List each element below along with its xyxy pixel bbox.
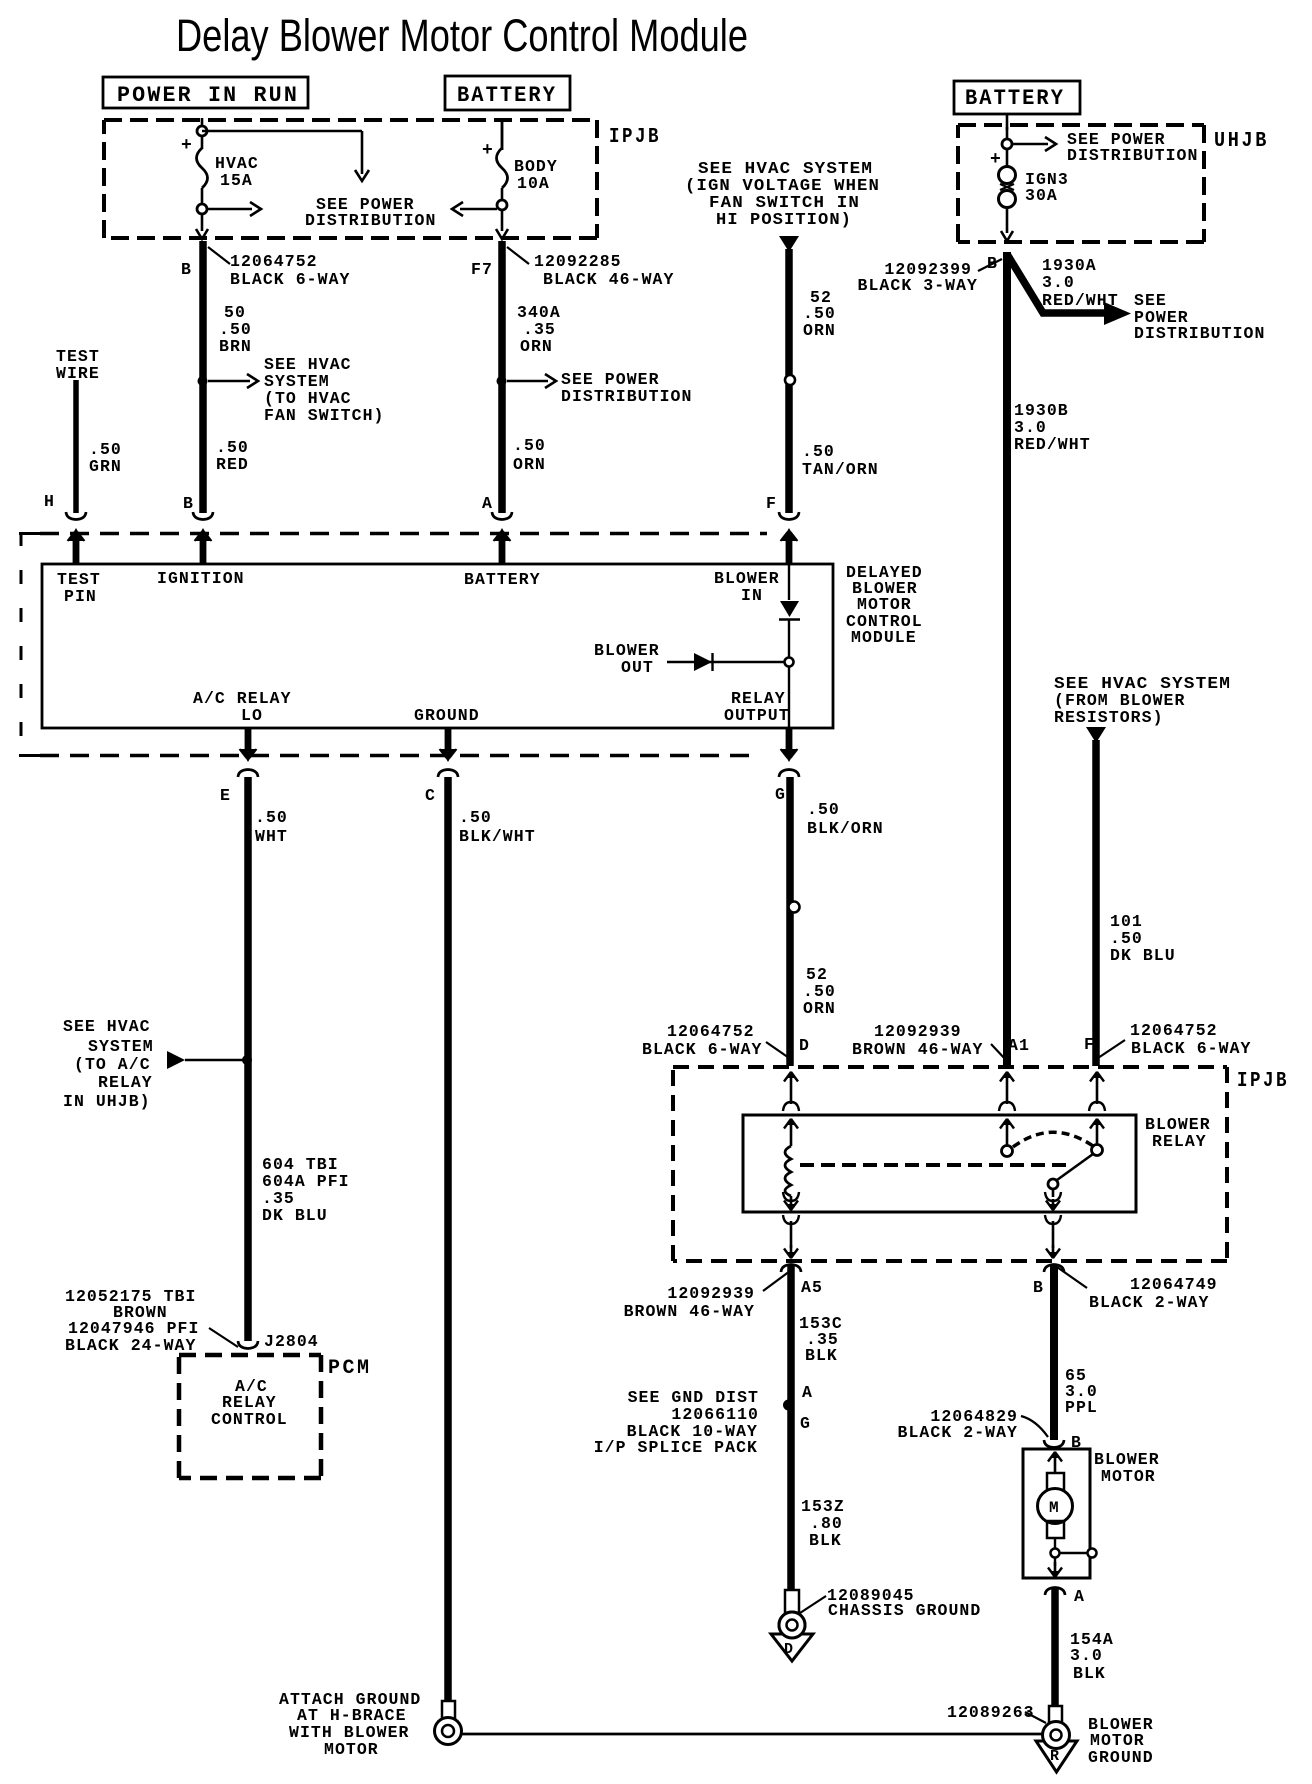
node A/C relay branch	[242, 1055, 252, 1065]
relay contact common	[1006, 1119, 1009, 1145]
module output arrow RELAY OUTPUT	[786, 728, 793, 754]
blower motor input arrow	[1054, 1452, 1057, 1473]
svg-text:ORN: ORN	[513, 455, 546, 474]
relay contact NO	[1096, 1119, 1099, 1145]
svg-text:UHJB: UHJB	[1214, 130, 1269, 153]
diode blower-in	[788, 564, 790, 600]
module input arrow IGNITION	[200, 536, 207, 564]
svg-text:.50: .50	[807, 800, 840, 819]
svg-text:PPL: PPL	[1065, 1398, 1098, 1417]
arrow from A/C relay branch	[167, 1051, 185, 1069]
svg-text:RELAY: RELAY	[98, 1073, 153, 1092]
svg-text:BATTERY: BATTERY	[457, 83, 557, 108]
wire 154A BLK to ground	[1051, 1589, 1059, 1706]
ring terminal blower motor ground	[1049, 1706, 1062, 1724]
label POWER IN RUN	[103, 77, 308, 108]
svg-text:A: A	[482, 494, 493, 513]
wire 1930A RED/WHT branch to power distribution	[1007, 254, 1106, 313]
svg-text:G: G	[775, 785, 786, 804]
svg-text:A1: A1	[1008, 1036, 1030, 1055]
wire stub BATTERY to fuse BODY	[501, 118, 504, 150]
svg-text:12064752: 12064752	[230, 252, 318, 271]
svg-text:DISTRIBUTION: DISTRIBUTION	[305, 211, 436, 230]
wire .50 BLK/WHT ground	[444, 777, 452, 1702]
svg-text:12092939: 12092939	[874, 1022, 962, 1041]
wire ground strap to blower motor ground	[460, 1733, 1042, 1736]
svg-text:GROUND: GROUND	[1088, 1748, 1154, 1767]
relay contact arc dashed	[1013, 1132, 1093, 1147]
node splice to HVAC fan switch	[198, 376, 208, 386]
circuit breaker IGN3 30A	[999, 167, 1016, 184]
svg-text:IGNITION: IGNITION	[157, 569, 245, 588]
component blower motor	[1023, 1449, 1090, 1578]
module boundary dashed outline	[20, 532, 23, 757]
connector G at module output	[779, 770, 799, 778]
svg-text:DK BLU: DK BLU	[1110, 946, 1176, 965]
wire 1930B RED/WHT to blower relay	[1003, 252, 1011, 1066]
relay armature	[1048, 1179, 1058, 1189]
connector pin arrows at IPJB bottom coil	[783, 1215, 799, 1224]
svg-text:BLACK 3-WAY: BLACK 3-WAY	[858, 276, 978, 295]
svg-text:BLACK 6-WAY: BLACK 6-WAY	[230, 270, 350, 289]
svg-text:12064752: 12064752	[667, 1022, 755, 1041]
module output arrow GROUND	[445, 728, 452, 754]
svg-text:BLACK 2-WAY: BLACK 2-WAY	[898, 1423, 1018, 1442]
svg-text:B: B	[1033, 1278, 1044, 1297]
svg-text:F: F	[1084, 1035, 1095, 1054]
svg-text:+: +	[181, 136, 192, 156]
node relay output junction	[785, 658, 794, 667]
svg-text:GROUND: GROUND	[414, 706, 480, 725]
svg-text:I/P SPLICE PACK: I/P SPLICE PACK	[594, 1438, 758, 1457]
node splice to power distribution	[497, 376, 507, 386]
svg-text:DISTRIBUTION: DISTRIBUTION	[1067, 146, 1198, 165]
svg-text:A: A	[802, 1383, 813, 1402]
connector B 12064829	[1021, 1416, 1048, 1437]
connector E at module output	[238, 770, 258, 778]
svg-text:ORN: ORN	[520, 337, 553, 356]
svg-text:RED: RED	[216, 455, 249, 474]
svg-text:BLK: BLK	[1073, 1664, 1106, 1683]
fuse BODY 10A	[501, 122, 504, 150]
svg-text:FAN SWITCH): FAN SWITCH)	[264, 406, 384, 425]
module PCM box	[179, 1353, 321, 1358]
svg-text:.50: .50	[802, 442, 835, 461]
svg-text:SYSTEM: SYSTEM	[88, 1037, 154, 1056]
svg-text:MOTOR: MOTOR	[324, 1740, 379, 1759]
svg-text:BLACK 46-WAY: BLACK 46-WAY	[543, 270, 674, 289]
junction block UHJB	[958, 123, 1204, 127]
svg-text:10A: 10A	[517, 174, 550, 193]
relay mechanical linkage dashed	[800, 1163, 1070, 1167]
wire fuse1 top branch to SEE POWER DISTRIBUTION	[202, 130, 362, 133]
svg-text:LO: LO	[241, 706, 263, 725]
svg-text:12092285: 12092285	[534, 252, 622, 271]
svg-text:30A: 30A	[1025, 186, 1058, 205]
wire test lead	[73, 380, 79, 513]
diode blower-out	[667, 661, 786, 663]
svg-text:ORN: ORN	[803, 321, 836, 340]
svg-text:BATTERY: BATTERY	[965, 86, 1065, 111]
svg-text:OUTPUT: OUTPUT	[724, 706, 790, 725]
ring terminal chassis ground	[785, 1590, 799, 1613]
svg-text:BRN: BRN	[219, 337, 252, 356]
svg-text:3.0: 3.0	[1042, 273, 1075, 292]
svg-text:CHASSIS GROUND: CHASSIS GROUND	[828, 1601, 981, 1620]
wire 65 PPL to blower motor	[1050, 1266, 1058, 1440]
svg-text:POWER IN RUN: POWER IN RUN	[117, 83, 299, 108]
relay coil	[790, 1119, 793, 1146]
connector D 12064752	[766, 1042, 792, 1060]
svg-text:A: A	[1074, 1587, 1085, 1606]
svg-text:TAN/ORN: TAN/ORN	[802, 460, 879, 479]
svg-text:E: E	[220, 786, 231, 805]
svg-text:R: R	[1050, 1748, 1059, 1765]
svg-text:RED/WHT: RED/WHT	[1014, 435, 1091, 454]
svg-text:RELAY: RELAY	[1152, 1132, 1207, 1151]
svg-text:+: +	[990, 150, 1001, 170]
svg-text:PCM: PCM	[328, 1357, 372, 1380]
svg-text:IN UHJB): IN UHJB)	[63, 1092, 151, 1111]
svg-text:BLK: BLK	[809, 1531, 842, 1550]
svg-text:DK BLU: DK BLU	[262, 1206, 328, 1225]
svg-text:B: B	[183, 494, 194, 513]
svg-text:3.0: 3.0	[1070, 1646, 1103, 1665]
svg-text:G: G	[800, 1414, 811, 1433]
wire .50 BLK/ORN relay output	[786, 777, 794, 1066]
svg-text:BLK/WHT: BLK/WHT	[459, 827, 536, 846]
module Delayed Blower Motor Control Module box	[42, 564, 833, 728]
wire fuse2 down to connector F7	[501, 210, 504, 231]
wire fuse2 output arrow left	[460, 208, 497, 211]
connector at module ignition input	[193, 512, 213, 520]
wire 101 DK BLU from blower resistors	[1086, 727, 1106, 743]
connector at PCM input	[238, 1341, 258, 1349]
svg-text:+: +	[482, 141, 493, 161]
svg-text:(TO A/C: (TO A/C	[74, 1055, 151, 1074]
svg-text:BLACK 24-WAY: BLACK 24-WAY	[65, 1336, 196, 1355]
svg-text:H: H	[44, 492, 55, 511]
svg-text:RESISTORS): RESISTORS)	[1054, 708, 1164, 727]
svg-text:BATTERY: BATTERY	[464, 570, 541, 589]
svg-text:BLACK 6-WAY: BLACK 6-WAY	[642, 1040, 762, 1059]
svg-text:BLACK 6-WAY: BLACK 6-WAY	[1131, 1039, 1251, 1058]
svg-text:12064752: 12064752	[1130, 1021, 1218, 1040]
svg-text:MOTOR: MOTOR	[1101, 1467, 1156, 1486]
svg-text:BLACK 2-WAY: BLACK 2-WAY	[1089, 1293, 1209, 1312]
label BATTERY (UHJB)	[954, 81, 1080, 114]
svg-text:F: F	[766, 494, 777, 513]
connector at module battery input	[492, 512, 512, 520]
wire stub POWER IN RUN to fuse HVAC	[201, 118, 204, 128]
svg-text:HI POSITION): HI POSITION)	[716, 210, 852, 229]
svg-text:.50: .50	[459, 808, 492, 827]
svg-text:IPJB: IPJB	[609, 126, 661, 149]
wire fuse1 output arrow right	[208, 208, 252, 211]
svg-text:BROWN 46-WAY: BROWN 46-WAY	[624, 1302, 755, 1321]
connector A5 12092939	[781, 1265, 801, 1273]
node ground splice	[783, 1400, 794, 1411]
svg-text:C: C	[425, 786, 436, 805]
svg-text:DISTRIBUTION: DISTRIBUTION	[561, 387, 692, 406]
arrow to power distribution (UHJB)	[1012, 143, 1048, 146]
svg-text:12064749: 12064749	[1130, 1275, 1218, 1294]
svg-text:F7: F7	[471, 260, 493, 279]
svg-text:CONTROL: CONTROL	[211, 1410, 288, 1429]
connector C at module output	[438, 770, 458, 778]
svg-text:.50: .50	[255, 808, 288, 827]
svg-text:D: D	[784, 1641, 793, 1658]
motor output node	[1054, 1538, 1056, 1549]
connector F 12064752	[1098, 1040, 1125, 1058]
motor M circle	[1038, 1489, 1073, 1524]
motor brush bottom	[1047, 1521, 1064, 1538]
splice ring on relay output wire	[789, 902, 800, 913]
connector at module blower-in input	[779, 512, 799, 520]
junction block IPJB (blower relay)	[673, 1065, 1227, 1069]
svg-text:A5: A5	[801, 1278, 823, 1297]
svg-text:DISTRIBUTION: DISTRIBUTION	[1134, 324, 1265, 343]
fuse HVAC 15A	[197, 126, 207, 136]
motor brush top	[1047, 1473, 1064, 1490]
module input arrow BATTERY	[499, 536, 506, 564]
relay BLOWER RELAY box	[743, 1115, 1136, 1212]
svg-text:Delay Blower Motor Control Mo: Delay Blower Motor Control Module	[176, 10, 748, 61]
svg-text:12089263: 12089263	[947, 1703, 1035, 1722]
connector pin arrows at IPJB top D	[790, 1072, 793, 1104]
svg-text:IN: IN	[741, 586, 763, 605]
svg-text:BROWN 46-WAY: BROWN 46-WAY	[852, 1040, 983, 1059]
connector pin arrows at IPJB top F	[1096, 1072, 1099, 1104]
svg-text:WHT: WHT	[255, 827, 288, 846]
node battery feed	[1002, 139, 1012, 149]
connector B 12064749	[1044, 1265, 1064, 1273]
connector A blower motor output	[1045, 1588, 1065, 1596]
svg-text:J2804: J2804	[264, 1332, 319, 1351]
connector at module test pin input	[66, 512, 86, 520]
wire battery feed into UHJB	[1006, 127, 1009, 166]
module input arrow TEST PIN	[73, 536, 80, 564]
splice ring on wire F	[785, 375, 795, 385]
svg-text:PIN: PIN	[64, 587, 97, 606]
svg-text:SEE HVAC: SEE HVAC	[63, 1017, 151, 1036]
svg-text:MODULE: MODULE	[851, 628, 917, 647]
wire fuse1 down to connector B	[201, 214, 204, 231]
wire breaker output to connector B	[1006, 208, 1009, 233]
ring terminal attach ground	[442, 1701, 455, 1720]
svg-text:RED/WHT: RED/WHT	[1042, 291, 1119, 310]
svg-text:IPJB: IPJB	[1237, 1070, 1289, 1093]
junction block IPJB	[104, 118, 597, 122]
module output arrow A/C RELAY LO	[245, 728, 252, 754]
svg-text:BLK: BLK	[805, 1346, 838, 1365]
svg-text:12092939: 12092939	[667, 1284, 755, 1303]
svg-text:B: B	[181, 260, 192, 279]
wire 340A ORN from IPJB terminal F7	[498, 241, 506, 513]
blower motor output arrow	[1054, 1557, 1056, 1566]
label BATTERY (IPJB)	[445, 76, 570, 110]
relay output pin arrows	[1052, 1189, 1055, 1197]
svg-text:M: M	[1049, 1499, 1059, 1517]
svg-text:D: D	[799, 1036, 810, 1055]
wire stub BATTERY to UHJB	[1006, 114, 1009, 130]
module input arrow BLOWER IN	[786, 536, 793, 564]
connector pin arrows at IPJB top A1	[1006, 1072, 1009, 1104]
svg-text:15A: 15A	[220, 171, 253, 190]
svg-text:BLK/ORN: BLK/ORN	[807, 819, 884, 838]
wire 52 ORN from HVAC system	[779, 236, 799, 252]
svg-text:GRN: GRN	[89, 457, 122, 476]
connector A1 12092939	[991, 1044, 1006, 1060]
svg-text:.50: .50	[513, 436, 546, 455]
wire .50 WHT A/C relay lo	[244, 777, 252, 1341]
svg-text:OUT: OUT	[621, 658, 654, 677]
wire 50 BRN from IPJB terminal B	[199, 241, 207, 513]
svg-text:ORN: ORN	[803, 999, 836, 1018]
connector pin arrows at IPJB bottom relay output	[1045, 1215, 1061, 1224]
